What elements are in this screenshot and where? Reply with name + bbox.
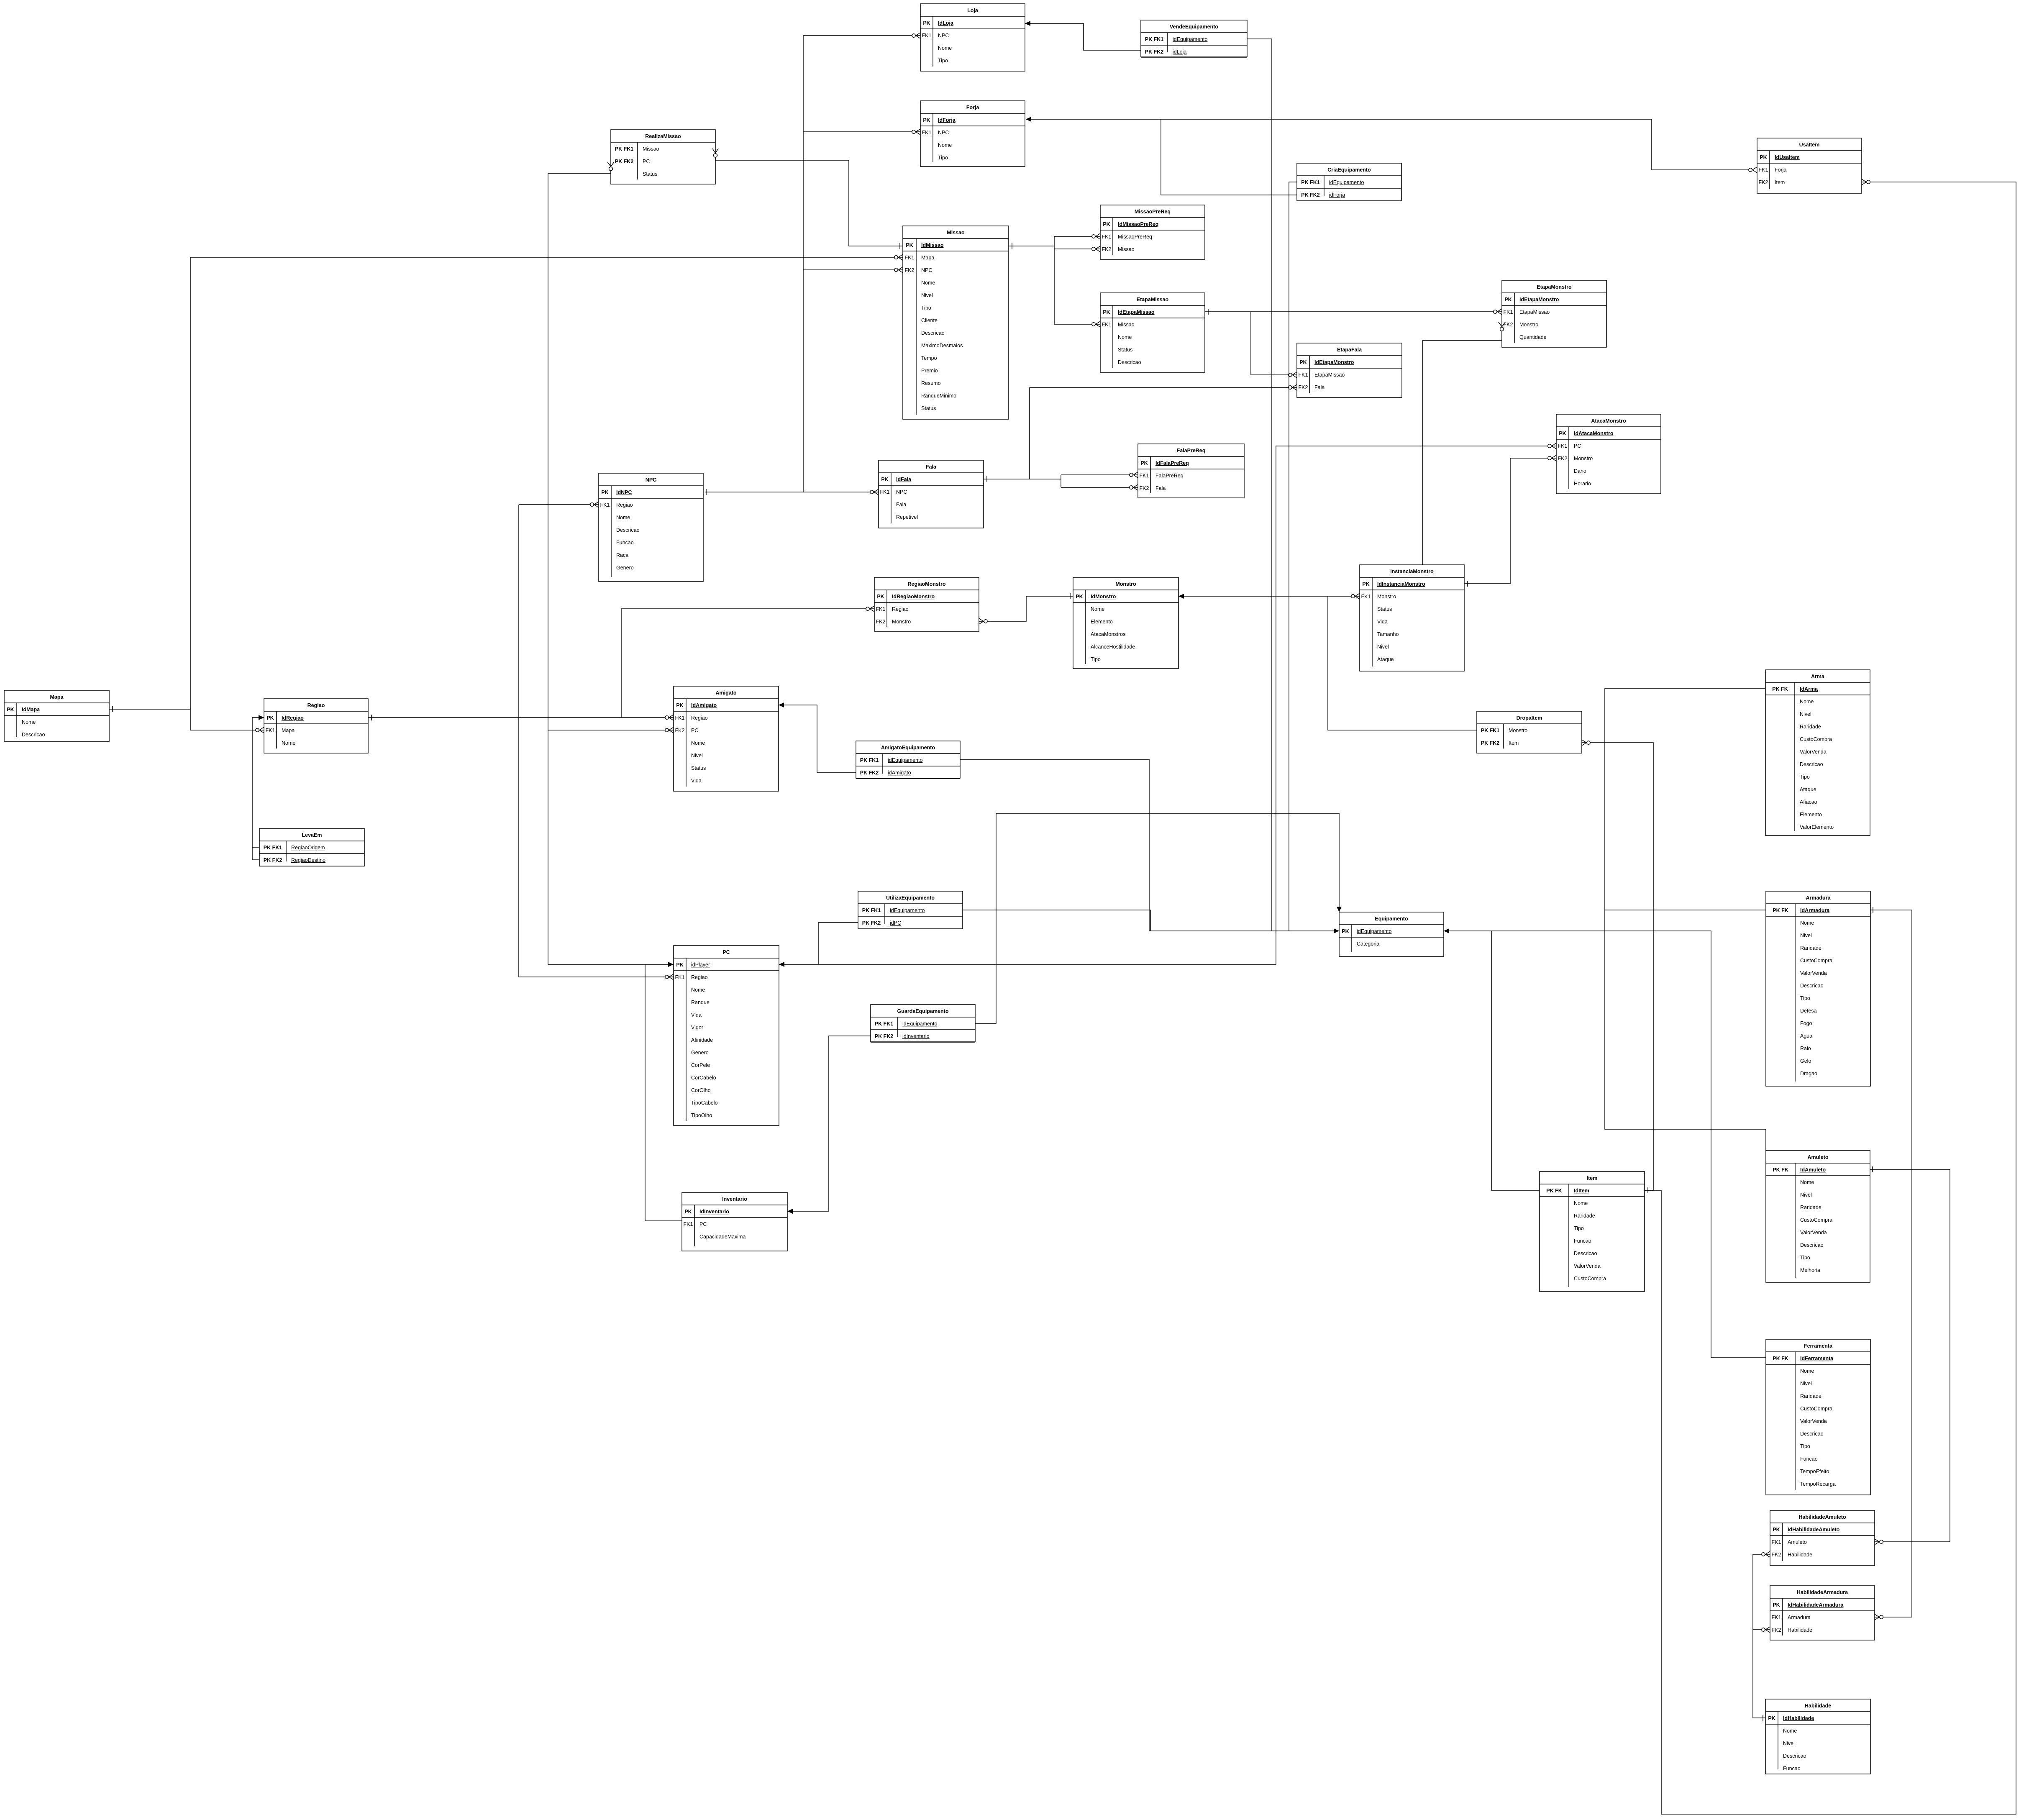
svg-text:FK1: FK1 <box>922 130 932 136</box>
svg-text:Nome: Nome <box>938 45 952 51</box>
svg-text:IdInventario: IdInventario <box>699 1209 729 1215</box>
entity Equipamento <box>1339 912 1444 956</box>
svg-text:HabilidadeArmadura: HabilidadeArmadura <box>1797 1589 1848 1595</box>
svg-text:Horario: Horario <box>1574 481 1591 487</box>
svg-text:Funcao: Funcao <box>1800 1456 1818 1462</box>
entity Amuleto <box>1766 1151 1870 1282</box>
wire EtapaMissao.IdEtapaMissao to EtapaMonstro.FK1 and EtapaFala.FK1 <box>1205 311 1502 312</box>
svg-text:Cliente: Cliente <box>921 318 938 323</box>
svg-text:PK FK1: PK FK1 <box>1481 728 1500 733</box>
svg-text:PK FK1: PK FK1 <box>862 907 881 913</box>
svg-text:UtilizaEquipamento: UtilizaEquipamento <box>886 895 935 901</box>
svg-text:PK: PK <box>1768 1715 1775 1721</box>
svg-text:Funcao: Funcao <box>1574 1238 1591 1244</box>
svg-text:FK1: FK1 <box>1361 594 1371 600</box>
svg-text:Equipamento: Equipamento <box>1375 916 1408 922</box>
svg-text:PK: PK <box>1076 594 1083 600</box>
svg-text:IdAtacaMonstro: IdAtacaMonstro <box>1574 431 1614 436</box>
svg-text:FK2: FK2 <box>876 619 886 625</box>
svg-text:Ataque: Ataque <box>1377 656 1394 662</box>
svg-text:idEquipamento: idEquipamento <box>1357 928 1391 934</box>
svg-text:FK1: FK1 <box>684 1221 693 1227</box>
svg-text:FK1: FK1 <box>1558 443 1568 449</box>
entity HabilidadeArmadura <box>1770 1586 1875 1640</box>
entity Arma <box>1765 670 1870 836</box>
svg-text:Nome: Nome <box>1800 1368 1814 1374</box>
svg-text:Nome: Nome <box>1800 920 1814 926</box>
svg-text:CorCabelo: CorCabelo <box>691 1075 716 1081</box>
svg-text:CapacidadeMaxima: CapacidadeMaxima <box>699 1234 746 1240</box>
svg-text:PK FK: PK FK <box>1773 1167 1788 1173</box>
entity Mapa <box>4 690 109 741</box>
svg-text:Nome: Nome <box>1574 1200 1588 1206</box>
svg-text:Nome: Nome <box>1118 334 1132 340</box>
svg-text:IdMonstro: IdMonstro <box>1091 594 1116 600</box>
entity Forja <box>920 101 1025 167</box>
svg-text:PK: PK <box>1559 431 1566 436</box>
svg-text:FK1: FK1 <box>266 728 275 733</box>
svg-text:DropaItem: DropaItem <box>1517 715 1542 721</box>
svg-text:Item: Item <box>1587 1175 1598 1181</box>
svg-text:Monstro: Monstro <box>1115 581 1136 587</box>
svg-text:CriaEquipamento: CriaEquipamento <box>1327 167 1371 173</box>
svg-text:FK1: FK1 <box>1772 1539 1781 1545</box>
svg-text:Inventario: Inventario <box>722 1196 747 1202</box>
svg-text:IdInstanciaMonstro: IdInstanciaMonstro <box>1377 581 1425 587</box>
svg-text:Funcao: Funcao <box>1783 1766 1801 1771</box>
svg-text:PK FK2: PK FK2 <box>1301 192 1320 198</box>
svg-text:ValorVenda: ValorVenda <box>1800 1418 1827 1424</box>
svg-text:PK: PK <box>1504 297 1512 302</box>
entity UtilizaEquipamento <box>858 891 963 929</box>
svg-text:FK2: FK2 <box>905 267 915 273</box>
svg-text:Dragao: Dragao <box>1800 1071 1817 1077</box>
svg-text:IdMapa: IdMapa <box>22 707 40 713</box>
svg-text:TipoOlho: TipoOlho <box>691 1113 712 1118</box>
svg-text:Nivel: Nivel <box>1800 711 1811 717</box>
svg-text:PC: PC <box>643 159 650 164</box>
wire Arma/Armadura/Amuleto PK group <box>1605 689 1766 1151</box>
svg-text:PC: PC <box>691 728 698 733</box>
svg-text:Monstro: Monstro <box>1519 322 1538 328</box>
svg-text:FalaPreReq: FalaPreReq <box>1155 473 1184 479</box>
svg-text:Amuleto: Amuleto <box>1808 1154 1829 1160</box>
entity AtacaMonstro <box>1556 414 1661 494</box>
svg-text:Monstro: Monstro <box>1574 456 1593 461</box>
svg-text:EtapaFala: EtapaFala <box>1337 347 1362 353</box>
svg-text:Raridade: Raridade <box>1800 724 1821 730</box>
svg-text:EtapaMissao: EtapaMissao <box>1137 297 1169 302</box>
svg-text:Genero: Genero <box>691 1050 709 1056</box>
svg-text:PK FK2: PK FK2 <box>1145 49 1164 55</box>
svg-text:PK FK: PK FK <box>1773 907 1788 913</box>
svg-text:Nivel: Nivel <box>1377 644 1389 650</box>
svg-text:FK1: FK1 <box>675 974 685 980</box>
svg-text:idLoja: idLoja <box>1173 49 1186 55</box>
svg-text:Tipo: Tipo <box>1800 995 1810 1001</box>
svg-text:Habilidade: Habilidade <box>1788 1552 1812 1558</box>
svg-text:Nivel: Nivel <box>1800 933 1812 938</box>
svg-text:Tamanho: Tamanho <box>1377 631 1399 637</box>
svg-text:PK: PK <box>881 477 888 482</box>
entity GuardaEquipamento <box>871 1005 975 1042</box>
svg-text:Habilidade: Habilidade <box>1788 1627 1812 1633</box>
entity Regiao <box>264 699 368 753</box>
svg-text:Nome: Nome <box>22 719 36 725</box>
svg-text:PK FK2: PK FK2 <box>264 857 282 863</box>
wire Mapa.IdMapa to Missao.FK1 and Regiao.FK1 <box>109 709 190 710</box>
svg-text:Amuleto: Amuleto <box>1788 1539 1807 1545</box>
svg-text:Tipo: Tipo <box>921 305 931 311</box>
wire RegiaoMonstro.Monstro to Monstro.IdMonstro <box>979 596 1073 621</box>
entity EtapaFala <box>1297 343 1402 397</box>
entity EtapaMissao <box>1100 293 1205 372</box>
svg-text:PK: PK <box>923 117 930 123</box>
wire NPC.IdNPC to Loja.FK1/Forja.FK1/Missao.FK2/Fala.FK1 <box>705 36 920 492</box>
entity Habilidade <box>1765 1699 1870 1774</box>
svg-text:Elemento: Elemento <box>1091 619 1113 625</box>
svg-text:ValorVenda: ValorVenda <box>1800 1230 1827 1236</box>
svg-text:Missao: Missao <box>1118 246 1135 252</box>
svg-text:Gelo: Gelo <box>1800 1058 1811 1064</box>
entity RealizaMissao <box>611 130 715 184</box>
wire Regiao.IdRegiao to NPC.FK1/Amigato.FK1/PC.FK1/RegiaoMonstro.FK1 <box>368 717 674 718</box>
entity CriaEquipamento <box>1297 163 1401 201</box>
svg-text:IdRegiaoMonstro: IdRegiaoMonstro <box>892 594 935 600</box>
svg-text:MissaoPreReq: MissaoPreReq <box>1135 209 1171 215</box>
svg-text:RegiaoMonstro: RegiaoMonstro <box>908 581 946 587</box>
svg-text:idForja: idForja <box>1329 192 1345 198</box>
svg-text:Monstro: Monstro <box>1509 728 1527 733</box>
svg-text:Nome: Nome <box>1783 1728 1797 1734</box>
svg-text:Quantidade: Quantidade <box>1519 334 1547 340</box>
svg-text:Vida: Vida <box>691 1012 702 1018</box>
svg-text:Status: Status <box>1377 606 1392 612</box>
svg-text:Categoria: Categoria <box>1357 941 1379 947</box>
svg-text:Vida: Vida <box>1377 619 1388 625</box>
svg-text:Tempo: Tempo <box>921 355 937 361</box>
svg-text:Status: Status <box>921 405 936 411</box>
entity Fala <box>879 460 984 528</box>
svg-text:UsaItem: UsaItem <box>1799 142 1820 148</box>
svg-text:Descricao: Descricao <box>921 330 945 336</box>
svg-text:Nome: Nome <box>691 987 705 993</box>
svg-text:Forja: Forja <box>966 105 980 110</box>
entity Armadura <box>1766 891 1870 1086</box>
svg-text:IdArmadura: IdArmadura <box>1800 907 1830 913</box>
svg-text:Nome: Nome <box>1800 1179 1814 1185</box>
svg-text:Descricao: Descricao <box>1800 761 1823 767</box>
svg-text:PK: PK <box>1103 221 1110 227</box>
svg-text:PK: PK <box>7 707 14 713</box>
svg-text:Nivel: Nivel <box>1783 1741 1795 1746</box>
svg-text:IdUsaItem: IdUsaItem <box>1775 154 1800 160</box>
svg-text:FK2: FK2 <box>675 728 685 733</box>
svg-text:Status: Status <box>643 171 657 177</box>
svg-text:ValorVenda: ValorVenda <box>1574 1263 1601 1269</box>
svg-text:Vigor: Vigor <box>691 1025 703 1030</box>
svg-text:ValorVenda: ValorVenda <box>1800 970 1827 976</box>
svg-text:Mapa: Mapa <box>921 255 934 261</box>
svg-text:PK FK1: PK FK1 <box>1145 36 1164 42</box>
svg-text:idEquipamento: idEquipamento <box>890 907 925 913</box>
entity RegiaoMonstro <box>874 577 979 631</box>
svg-text:Raio: Raio <box>1800 1046 1811 1051</box>
wire Armadura.IdArmadura to HabilidadeArmadura.FK1 <box>1870 910 1912 1617</box>
svg-text:MaximoDesmaios: MaximoDesmaios <box>921 343 963 349</box>
svg-text:Raridade: Raridade <box>1800 1393 1821 1399</box>
svg-text:Nivel: Nivel <box>921 292 933 298</box>
svg-text:Raca: Raca <box>616 552 628 558</box>
wire InstanciaMonstro.IdInstanciaMonstro to AtacaMonstro.FK2 <box>1464 458 1556 584</box>
svg-text:PK FK2: PK FK2 <box>1481 740 1500 746</box>
svg-text:Mapa: Mapa <box>50 694 64 700</box>
svg-text:Item: Item <box>1775 179 1785 185</box>
svg-text:ValorElemento: ValorElemento <box>1800 824 1834 830</box>
entity Loja <box>920 4 1025 71</box>
svg-text:PK: PK <box>1140 460 1148 466</box>
entity UsaItem <box>1757 138 1862 193</box>
svg-text:Resumo: Resumo <box>921 380 941 386</box>
entity InstanciaMonstro <box>1360 565 1464 671</box>
svg-text:Fala: Fala <box>896 502 906 508</box>
svg-text:PC: PC <box>722 949 730 955</box>
svg-text:Amigato: Amigato <box>716 690 737 696</box>
wire Item.IdItem to UsaItem.FK2 (bottom route) <box>1645 182 2016 1814</box>
svg-text:PK: PK <box>676 962 683 968</box>
svg-text:PK: PK <box>923 20 930 26</box>
wire VendeEquipamento.idLoja to Loja.IdLoja <box>1025 23 1141 50</box>
svg-text:FK1: FK1 <box>922 33 932 38</box>
svg-text:PK: PK <box>1299 359 1307 365</box>
svg-text:Descricao: Descricao <box>1118 359 1141 365</box>
svg-text:IdArma: IdArma <box>1800 686 1818 692</box>
svg-text:Status: Status <box>691 765 706 771</box>
svg-text:PK: PK <box>877 594 884 600</box>
svg-text:Genero: Genero <box>616 565 634 571</box>
svg-text:Fogo: Fogo <box>1800 1020 1812 1026</box>
svg-text:FK1: FK1 <box>905 255 915 261</box>
svg-text:CustoCompra: CustoCompra <box>1800 1406 1832 1412</box>
svg-text:CustoCompra: CustoCompra <box>1800 958 1832 964</box>
svg-text:PK: PK <box>1103 309 1110 315</box>
svg-text:Nivel: Nivel <box>1800 1192 1812 1198</box>
svg-text:NPC: NPC <box>921 267 932 273</box>
svg-text:AmigatoEquipamento: AmigatoEquipamento <box>881 745 935 751</box>
svg-text:RegiaoOrigem: RegiaoOrigem <box>291 845 325 851</box>
svg-text:IdFalaPreReq: IdFalaPreReq <box>1155 460 1189 466</box>
svg-text:AlcanceHostilidade: AlcanceHostilidade <box>1091 644 1135 650</box>
svg-text:Nivel: Nivel <box>1800 1381 1812 1387</box>
entity VendeEquipamento <box>1141 20 1247 58</box>
wire AmigatoEquipamento/UtilizaEquipamento/VendeEquipamento/CriaEquipamento idEquipamento to Equipamento <box>960 759 1339 931</box>
svg-text:Defesa: Defesa <box>1800 1008 1817 1014</box>
svg-text:IdMissao: IdMissao <box>921 242 944 248</box>
svg-text:idInventario: idInventario <box>902 1033 930 1039</box>
svg-text:Regiao: Regiao <box>616 502 633 508</box>
svg-text:Funcao: Funcao <box>616 540 634 546</box>
svg-text:PK: PK <box>1773 1527 1780 1533</box>
wire Missao.IdMissao to MissaoPreReq.FK1/FK2 and EtapaMissao.FK1 <box>1009 246 1054 246</box>
svg-text:Missao: Missao <box>643 146 659 152</box>
svg-text:IdHabilidadeAmuleto: IdHabilidadeAmuleto <box>1788 1527 1840 1533</box>
wire Habilidade.IdHabilidade to HabilidadeAmuleto.FK2 and HabilidadeArmadura.FK2 <box>1753 1554 1765 1718</box>
entity Item <box>1540 1171 1645 1292</box>
svg-text:FK2: FK2 <box>1140 485 1149 491</box>
svg-text:Tipo: Tipo <box>1091 656 1101 662</box>
svg-text:Dano: Dano <box>1574 468 1586 474</box>
svg-text:PC: PC <box>1574 443 1581 449</box>
svg-text:Tipo: Tipo <box>938 58 948 64</box>
svg-text:Descricao: Descricao <box>616 527 640 533</box>
svg-text:Regiao: Regiao <box>691 974 708 980</box>
wire RealizaMissao.PC / Amigato.PC / Inventario.PC to PC.idPlayer <box>548 171 674 964</box>
svg-text:IdItem: IdItem <box>1574 1188 1589 1194</box>
entity PC <box>674 946 779 1125</box>
svg-text:PK: PK <box>1760 154 1767 160</box>
wire DropaItem.Item to Item.IdItem <box>1582 743 1653 1190</box>
svg-text:PK FK: PK FK <box>1546 1188 1562 1194</box>
wire RealizaMissao.Missao to Missao.IdMissao <box>715 157 903 246</box>
svg-text:Regiao: Regiao <box>307 702 325 708</box>
svg-text:Mapa: Mapa <box>282 728 295 733</box>
svg-text:NPC: NPC <box>938 130 949 136</box>
wire Amuleto.IdAmuleto to HabilidadeAmuleto.FK1 <box>1870 1169 1950 1542</box>
svg-text:Nome: Nome <box>921 280 935 286</box>
svg-text:PK: PK <box>676 702 683 708</box>
svg-text:EtapaMissao: EtapaMissao <box>1314 372 1345 378</box>
svg-text:Loja: Loja <box>967 8 979 13</box>
svg-text:FalaPreReq: FalaPreReq <box>1177 448 1206 454</box>
entity FalaPreReq <box>1138 444 1244 498</box>
svg-text:Raridade: Raridade <box>1800 1205 1821 1210</box>
svg-text:Fala: Fala <box>926 464 937 470</box>
svg-text:Arma: Arma <box>1811 674 1825 679</box>
wire GuardaEquipamento.idEquipamento to Equipamento (top) <box>975 813 1339 1023</box>
svg-text:PK: PK <box>266 715 274 721</box>
svg-text:Nome: Nome <box>282 740 295 746</box>
svg-text:Armadura: Armadura <box>1788 1615 1811 1620</box>
svg-text:IdNPC: IdNPC <box>616 490 632 495</box>
svg-text:EtapaMissao: EtapaMissao <box>1519 309 1550 315</box>
svg-text:IdMissaoPreReq: IdMissaoPreReq <box>1118 221 1158 227</box>
svg-text:Tipo: Tipo <box>1800 774 1810 780</box>
svg-text:Ranque: Ranque <box>691 1000 710 1005</box>
svg-text:Descricao: Descricao <box>1800 983 1824 989</box>
svg-text:Descricao: Descricao <box>1783 1753 1806 1759</box>
svg-text:CustoCompra: CustoCompra <box>1800 736 1832 742</box>
svg-text:FK2: FK2 <box>1772 1627 1781 1633</box>
svg-text:Repetivel: Repetivel <box>896 514 918 520</box>
svg-text:idPlayer: idPlayer <box>691 962 710 968</box>
svg-text:PK FK1: PK FK1 <box>860 757 879 763</box>
svg-text:Missao: Missao <box>947 230 965 236</box>
svg-text:RanqueMinimo: RanqueMinimo <box>921 393 956 399</box>
svg-text:Fala: Fala <box>1314 385 1324 390</box>
svg-text:FK1: FK1 <box>1772 1615 1781 1620</box>
wire Forja.IdForja to CriaEquipamento.idForja and UsaItem.FK1 <box>1026 119 1753 170</box>
svg-text:TempoRecarga: TempoRecarga <box>1800 1481 1836 1487</box>
svg-text:Elemento: Elemento <box>1800 812 1822 818</box>
svg-text:PK FK: PK FK <box>1773 1356 1788 1361</box>
svg-text:idAmigato: idAmigato <box>888 770 911 776</box>
svg-text:Forja: Forja <box>1775 167 1787 173</box>
svg-text:PK: PK <box>1773 1602 1780 1608</box>
svg-text:Descricao: Descricao <box>22 732 45 738</box>
svg-text:CustoCompra: CustoCompra <box>1800 1217 1832 1223</box>
svg-text:PK: PK <box>1362 581 1369 587</box>
svg-text:CorOlho: CorOlho <box>691 1087 711 1093</box>
svg-text:Item: Item <box>1509 740 1519 746</box>
entity EtapaMonstro <box>1502 280 1606 347</box>
svg-text:FK1: FK1 <box>675 715 685 721</box>
wire GuardaEquipamento.idInventario to Inventario.IdInventario <box>787 1036 871 1211</box>
svg-text:EtapaMonstro: EtapaMonstro <box>1537 284 1572 290</box>
wire LevaEm keys to Regiao.IdRegiao <box>252 847 259 848</box>
svg-text:TempoEfeito: TempoEfeito <box>1800 1469 1829 1474</box>
svg-text:Fala: Fala <box>1155 485 1166 491</box>
svg-text:idEquipamento: idEquipamento <box>902 1021 937 1027</box>
svg-text:FK2: FK2 <box>1558 456 1568 461</box>
svg-text:idPC: idPC <box>890 920 901 926</box>
svg-text:Nome: Nome <box>616 515 630 520</box>
svg-text:FK1: FK1 <box>876 606 886 612</box>
svg-text:FK1: FK1 <box>1504 309 1513 315</box>
svg-text:Nome: Nome <box>938 142 952 148</box>
svg-text:Descricao: Descricao <box>1574 1251 1597 1256</box>
svg-text:FK2: FK2 <box>1102 246 1112 252</box>
svg-text:Monstro: Monstro <box>892 619 911 625</box>
svg-text:Raridade: Raridade <box>1800 945 1821 951</box>
svg-text:Nome: Nome <box>1800 699 1814 705</box>
svg-text:PK: PK <box>601 490 608 495</box>
svg-text:PK FK: PK FK <box>1772 686 1788 692</box>
entity Inventario <box>682 1192 787 1251</box>
svg-text:ValorVenda: ValorVenda <box>1800 749 1827 755</box>
svg-text:Tipo: Tipo <box>938 155 948 161</box>
wire Monstro.IdMonstro to InstanciaMonstro.FK1 and DropaItem.Monstro <box>1178 596 1360 597</box>
svg-text:Raridade: Raridade <box>1574 1213 1595 1219</box>
svg-text:PK FK2: PK FK2 <box>860 770 879 776</box>
svg-text:IdHabilidade: IdHabilidade <box>1783 1715 1814 1721</box>
entity LevaEm <box>259 828 364 866</box>
svg-text:IdEtapaMonstro: IdEtapaMonstro <box>1314 359 1354 365</box>
svg-text:IdAmigato: IdAmigato <box>691 702 717 708</box>
svg-text:Afiacao: Afiacao <box>1800 799 1817 805</box>
svg-text:IdRegiao: IdRegiao <box>282 715 304 721</box>
svg-text:FK1: FK1 <box>1299 372 1308 378</box>
svg-text:AtacaMonstros: AtacaMonstros <box>1091 631 1125 637</box>
svg-text:Status: Status <box>1118 347 1132 353</box>
svg-text:IdForja: IdForja <box>938 117 956 123</box>
svg-text:AtacaMonstro: AtacaMonstro <box>1591 418 1626 424</box>
svg-text:IdHabilidadeArmadura: IdHabilidadeArmadura <box>1788 1602 1844 1608</box>
svg-text:RegiaoDestino: RegiaoDestino <box>291 857 325 863</box>
svg-text:PK FK1: PK FK1 <box>615 146 634 152</box>
entity NPC <box>599 473 703 582</box>
svg-text:PK: PK <box>1342 928 1349 934</box>
svg-text:IdAmuleto: IdAmuleto <box>1800 1167 1826 1173</box>
svg-text:FK1: FK1 <box>880 489 890 495</box>
svg-text:Descricao: Descricao <box>1800 1242 1824 1248</box>
svg-text:TipoCabelo: TipoCabelo <box>691 1100 718 1106</box>
svg-text:PC: PC <box>699 1221 707 1227</box>
wire Equipamento.idEquipamento to Ferramenta.PK and Item.PK <box>1444 931 1766 1358</box>
svg-text:PK FK2: PK FK2 <box>875 1033 894 1039</box>
svg-text:Nome: Nome <box>1091 606 1104 612</box>
svg-text:NPC: NPC <box>938 33 949 38</box>
svg-text:Nivel: Nivel <box>691 753 703 759</box>
